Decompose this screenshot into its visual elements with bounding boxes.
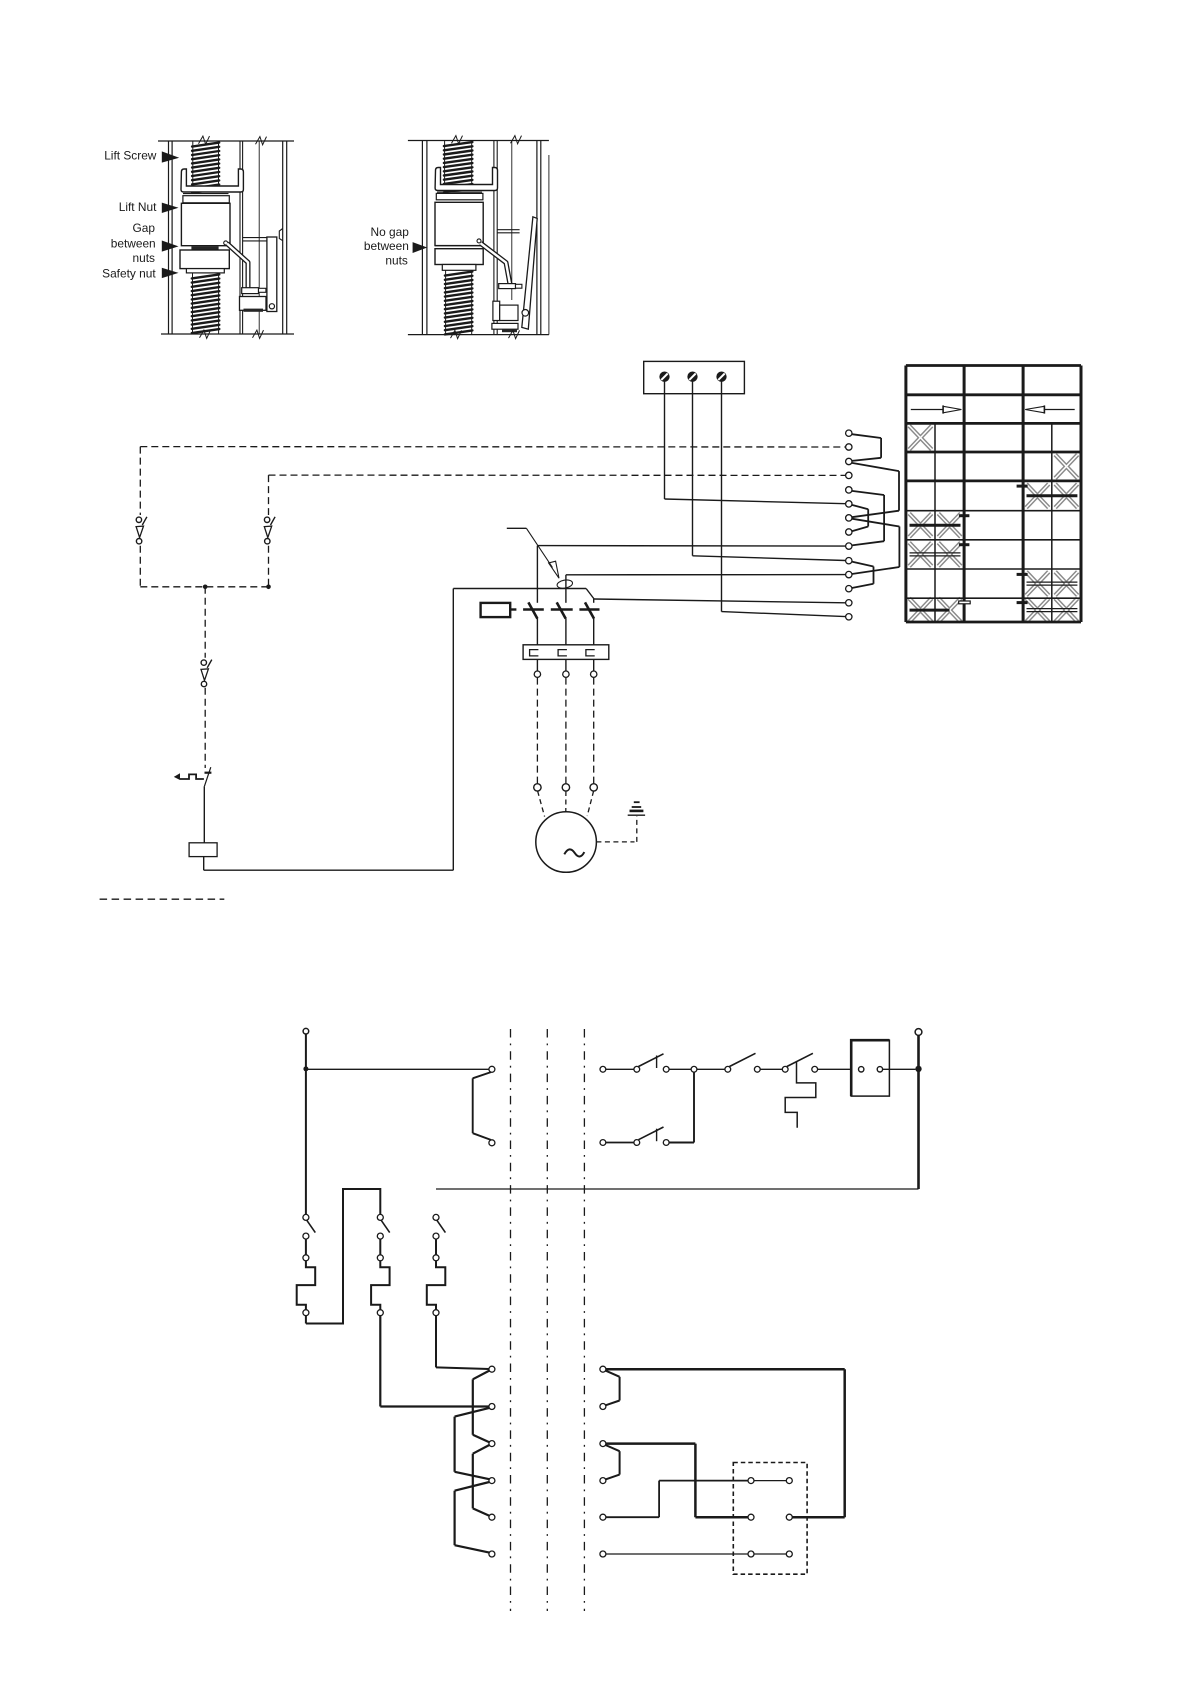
svg-text:between: between [111, 237, 156, 251]
svg-text:No gap: No gap [371, 225, 410, 239]
svg-text:Gap: Gap [133, 221, 156, 235]
svg-text:nuts: nuts [133, 251, 156, 265]
svg-text:Lift Nut: Lift Nut [119, 200, 157, 214]
svg-text:nuts: nuts [385, 254, 408, 268]
svg-text:Lift Screw: Lift Screw [104, 149, 157, 163]
svg-text:between: between [364, 239, 409, 253]
svg-text:Safety nut: Safety nut [102, 267, 156, 281]
